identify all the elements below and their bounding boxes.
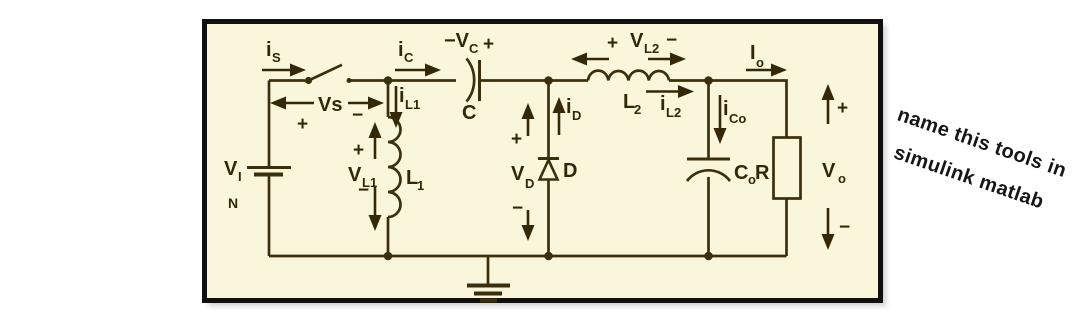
svg-text:D: D [525,176,534,191]
svg-text:i: i [266,39,272,61]
svg-text:C: C [734,162,748,184]
svg-text:I: I [238,169,242,184]
svg-text:+: + [511,129,522,150]
svg-text:V: V [630,30,644,52]
svg-text:Vs: Vs [318,94,342,116]
svg-text:o: o [838,171,846,186]
svg-text:S: S [272,50,281,65]
svg-text:−: − [512,198,523,219]
svg-text:i: i [723,98,729,120]
svg-text:L1: L1 [405,97,420,112]
svg-text:i: i [399,85,405,107]
svg-text:−: − [666,30,677,51]
svg-text:1: 1 [417,178,424,193]
svg-text:R: R [755,162,770,184]
svg-text:C: C [469,41,479,56]
svg-text:V: V [822,160,836,182]
svg-text:+: + [483,34,494,55]
svg-text:C: C [462,102,476,124]
svg-text:V: V [224,158,238,180]
svg-text:D: D [563,160,577,182]
svg-text:−: − [352,105,363,126]
svg-text:o: o [756,55,764,70]
svg-text:L2: L2 [644,41,659,56]
svg-text:L2: L2 [666,105,681,120]
svg-text:i: i [398,39,404,61]
svg-text:V: V [511,163,525,185]
svg-text:N: N [228,195,238,211]
svg-text:−: − [358,180,369,201]
svg-text:i: i [660,93,666,115]
svg-text:−V: −V [444,30,470,52]
svg-text:−: − [839,217,850,238]
svg-text:+: + [353,140,364,161]
svg-text:I: I [750,42,756,64]
svg-text:D: D [572,108,581,123]
svg-text:2: 2 [634,102,641,117]
svg-text:Co: Co [729,111,746,126]
svg-text:i: i [566,96,572,118]
svg-text:C: C [404,50,414,65]
svg-text:+: + [837,98,848,119]
svg-text:+: + [607,33,618,54]
svg-text:+: + [297,114,308,135]
